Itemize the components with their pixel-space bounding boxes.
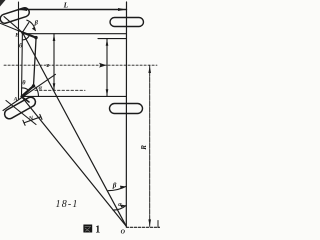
svg-text:L: L — [63, 1, 69, 10]
dimension N right tick — [40, 114, 42, 119]
knuckle blob at B — [21, 31, 24, 34]
dimension M bottom arrowhead — [106, 89, 109, 96]
knuckle stub at A — [22, 97, 30, 103]
svg-text:18-1: 18-1 — [56, 199, 79, 210]
wheel B plane trace line 2 — [4, 17, 22, 33]
dimension N line — [24, 117, 41, 123]
svg-text:A: A — [13, 96, 18, 102]
dimension z top arrowhead — [53, 34, 56, 41]
ground/base line at O — [126, 226, 160, 228]
svg-text:R: R — [140, 145, 148, 151]
angle arc beta at O — [108, 186, 126, 190]
svg-text:B: B — [14, 33, 19, 39]
dashed reference line H3dash — [35, 89, 85, 91]
svg-text:α: α — [39, 85, 43, 92]
kingpin connecting line AB — [21, 32, 24, 96]
short reference line H2b — [98, 38, 127, 40]
arm joint blob at B — [34, 36, 37, 39]
corner scan mark — [0, 0, 6, 7]
svg-text:β: β — [112, 182, 117, 190]
svg-text:O: O — [121, 229, 126, 235]
vehicle centre dashed line H1 — [4, 64, 157, 66]
arm joint blob at A — [32, 84, 35, 87]
longitudinal reference line through A (H3) — [22, 95, 127, 97]
wheel B plane trace line 1 — [0, 23, 22, 32]
tie rod — [34, 39, 37, 86]
wheel A axis stub — [6, 101, 36, 125]
front kingpin axis line V1 (vertical through B and A) — [18, 2, 20, 99]
angle arc theta at B — [22, 35, 29, 40]
dimension M line — [106, 39, 108, 97]
angle arc alpha at O — [113, 205, 126, 210]
beta arc arrowhead at O — [120, 186, 126, 189]
svg-text:β: β — [34, 19, 39, 26]
longitudinal reference line through B (H2) — [22, 33, 126, 35]
angle arc alpha at A — [36, 87, 39, 96]
steering arm at A (thick) — [22, 86, 34, 97]
wheel A plane trace line — [3, 74, 56, 110]
dimension N left tick — [23, 120, 25, 125]
angle arc beta at B — [27, 20, 36, 30]
steering axis line O-B — [22, 32, 126, 226]
dimension L left arrowhead — [19, 8, 27, 11]
end tick on base line — [157, 221, 159, 228]
rear wheel mid right (stadium) — [110, 104, 143, 114]
angle arc theta at A — [22, 88, 29, 90]
front outer wheel at B (steered stadium) — [0, 7, 30, 25]
front inner wheel at A (steered stadium) — [3, 95, 37, 120]
rear wheel top right (stadium) — [110, 18, 144, 27]
dimension z bottom arrowhead — [53, 83, 56, 90]
beta arc arrowhead at B — [32, 27, 36, 31]
svg-text:z: z — [46, 62, 49, 69]
knuckle fan line at B — [22, 23, 28, 33]
caption glyph 图 — [83, 225, 92, 233]
steering axis line O-A — [22, 97, 127, 227]
rear axle line V2 (vertical to turning centre O) — [125, 2, 127, 226]
steering arm at B (thick) — [22, 32, 36, 37]
arrow mark on centre line — [99, 63, 107, 68]
dimension R line — [149, 65, 151, 226]
svg-text:1: 1 — [95, 225, 100, 236]
alpha arc arrowhead at O — [121, 205, 127, 208]
dimension z line — [53, 34, 55, 91]
dimension L right arrowhead — [118, 8, 126, 11]
dimension R top arrowhead — [148, 66, 151, 73]
dimension M top arrowhead — [106, 39, 109, 46]
dimension L line — [19, 9, 127, 11]
dimension R bottom arrowhead — [148, 219, 151, 226]
